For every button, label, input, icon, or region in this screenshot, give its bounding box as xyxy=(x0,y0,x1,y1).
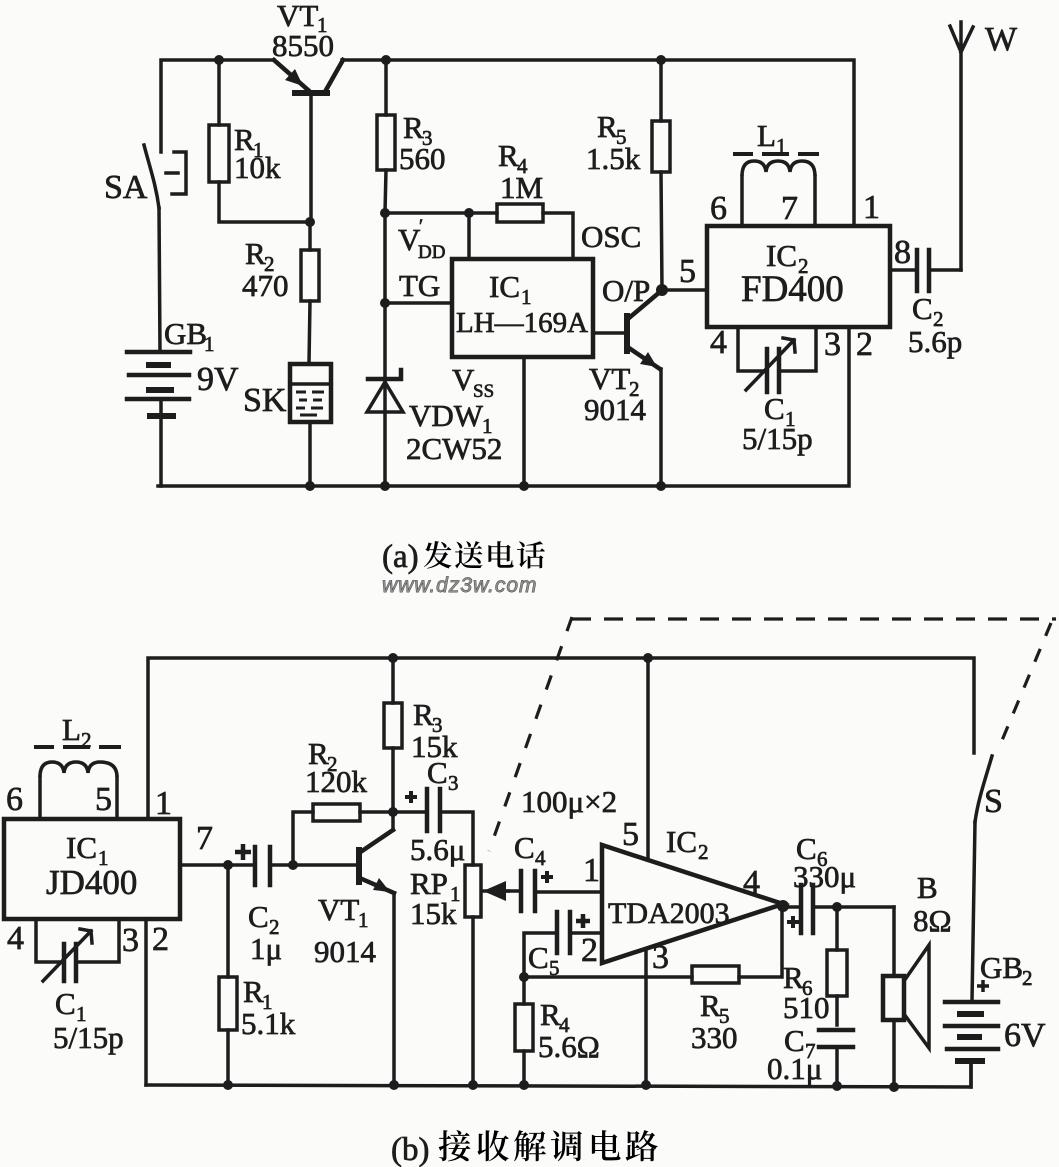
node junction VT1 base / R1 / R2 xyxy=(305,217,315,227)
op-amp U4: IC2 TDA2003 triangle xyxy=(602,824,783,963)
op-amp U1: IC1 LH-169A box xyxy=(452,259,593,357)
svg-text:W: W xyxy=(985,21,1018,58)
svg-text:GB: GB xyxy=(164,316,207,351)
svg-text:0.1μ: 0.1μ xyxy=(767,1051,822,1086)
svg-text:7: 7 xyxy=(781,190,798,227)
svg-text:SK: SK xyxy=(243,382,287,419)
svg-text:TG: TG xyxy=(399,268,440,303)
svg-text:2: 2 xyxy=(1022,966,1033,990)
pin number 3 (IC2) xyxy=(824,326,841,363)
svg-text:3: 3 xyxy=(824,326,841,363)
svg-text:IC: IC xyxy=(66,830,97,865)
svg-text:3: 3 xyxy=(122,922,139,959)
svg-text:1.5k: 1.5k xyxy=(586,141,641,176)
capacitor C2 1u (b) xyxy=(235,844,356,966)
dashed line right diagonal xyxy=(998,623,1051,750)
capacitor C4 100u xyxy=(508,830,602,911)
node junction C7 bottom xyxy=(832,1081,842,1091)
svg-text:IC: IC xyxy=(489,269,520,304)
svg-text:7: 7 xyxy=(196,820,213,857)
resistor R2 120k (b) xyxy=(293,736,393,865)
pin number 1 (IC1 JD400) xyxy=(155,785,172,822)
svg-text:R: R xyxy=(245,236,266,271)
svg-text:www.dz3w.com: www.dz3w.com xyxy=(382,574,538,597)
svg-text:C: C xyxy=(912,291,933,326)
svg-text:8Ω: 8Ω xyxy=(913,903,952,938)
node junction Vdd xyxy=(380,208,390,218)
node junction R1 top (b) xyxy=(223,860,233,870)
node junction R1 top xyxy=(214,55,224,65)
svg-text:1M: 1M xyxy=(500,170,543,205)
svg-text:C: C xyxy=(248,899,269,934)
svg-text:9V: 9V xyxy=(197,361,239,398)
transistor VT1 9014 (b) xyxy=(314,812,394,1085)
pin number 3 (TDA2003) xyxy=(652,939,669,976)
svg-text:R: R xyxy=(498,138,519,173)
resistor R5 330 (b) xyxy=(691,907,782,1055)
dashed line left diagonal xyxy=(489,617,572,851)
node junction speaker bottom xyxy=(889,1082,899,1092)
capacitor C2 5.6p xyxy=(890,250,962,359)
capacitor C5 100u xyxy=(524,912,602,980)
wire Vdd node to R4 node xyxy=(385,211,469,215)
wire pin7 to C2 xyxy=(180,863,255,867)
pin number 2 (TDA2003) xyxy=(581,932,598,969)
zener diode VDW1 2CW52 xyxy=(367,303,502,486)
watermark www.dz3w.com xyxy=(382,574,538,597)
svg-text:2: 2 xyxy=(581,932,598,969)
label 100u x2 xyxy=(521,784,617,819)
svg-text:1: 1 xyxy=(583,852,600,889)
wire bottom rail (a) xyxy=(158,327,849,486)
potentiometer RP1 15k xyxy=(410,865,508,1085)
dashed line top xyxy=(572,617,1056,620)
wire SA to battery xyxy=(159,208,160,352)
svg-text:2: 2 xyxy=(152,921,169,958)
capacitor C6 330u xyxy=(783,831,894,933)
svg-text:C: C xyxy=(528,940,549,975)
svg-text:1: 1 xyxy=(358,908,369,932)
pin number 2 (IC2) xyxy=(856,326,873,363)
variable capacitor C1 5/15p xyxy=(738,327,816,456)
pin label TG xyxy=(399,268,440,303)
node junction SK bottom xyxy=(305,481,315,491)
inductor L2 xyxy=(34,712,121,819)
svg-text:4: 4 xyxy=(535,846,546,870)
microphone SK xyxy=(243,364,331,486)
svg-text:5/15p: 5/15p xyxy=(53,1020,124,1055)
node junction C5 / R4 / feedback wire xyxy=(519,972,529,982)
svg-text:LH—169A: LH—169A xyxy=(456,307,588,339)
wire IC1 pin2 to ground (b) xyxy=(144,919,148,1085)
svg-text:DD: DD xyxy=(418,242,445,263)
node junction TDA2003 output pin4 xyxy=(777,900,789,912)
svg-text:R: R xyxy=(597,109,618,144)
svg-text:GB: GB xyxy=(980,950,1023,985)
variable capacitor C1 5/15p (b) xyxy=(36,919,124,1055)
resistor R3 15k (b) xyxy=(384,658,458,812)
svg-text:4: 4 xyxy=(743,864,760,901)
svg-text:SA: SA xyxy=(104,169,148,206)
svg-text:V: V xyxy=(452,362,475,397)
svg-text:120k: 120k xyxy=(305,764,368,799)
wire S to battery GB2 xyxy=(972,822,975,1001)
wire Vss to ground rail xyxy=(522,357,526,486)
pin number 2 (IC1 JD400 bottom) xyxy=(152,921,169,958)
svg-text:VT: VT xyxy=(318,892,359,927)
node junction R3 / R2 / C3 / VT1 collector xyxy=(388,807,398,817)
svg-text:1: 1 xyxy=(155,785,172,822)
svg-text:′: ′ xyxy=(419,216,423,237)
svg-text:6V: 6V xyxy=(1004,1017,1046,1054)
pin number 5 (TDA2003) xyxy=(622,816,639,853)
svg-text:O/P: O/P xyxy=(602,273,650,308)
pin number 1 (IC2) xyxy=(863,189,880,226)
svg-text:1: 1 xyxy=(521,285,532,309)
battery GB1 9V xyxy=(127,316,239,486)
svg-text:8550: 8550 xyxy=(272,28,334,63)
node junction TG / VDW1 xyxy=(380,298,390,308)
svg-text:C: C xyxy=(427,755,448,790)
node junction O/P / R5 / VT2 collector xyxy=(656,284,668,296)
svg-text:3: 3 xyxy=(448,771,459,795)
svg-text:R: R xyxy=(403,110,424,145)
node junction R1 bottom (b) xyxy=(223,1080,233,1090)
svg-text:5.1k: 5.1k xyxy=(241,1006,296,1041)
svg-text:510: 510 xyxy=(783,990,830,1025)
svg-text:B: B xyxy=(917,870,938,905)
capacitor C3 5.6u xyxy=(393,755,473,867)
transistor VT2 9014 xyxy=(584,291,661,486)
switch SA xyxy=(104,145,186,208)
svg-text:L: L xyxy=(757,118,776,153)
svg-text:IC: IC xyxy=(766,238,797,273)
svg-text:100μ×2: 100μ×2 xyxy=(521,784,617,819)
node junction C2 / R2 left xyxy=(288,860,298,870)
pin number 4 (TDA2003) xyxy=(743,864,760,901)
svg-text:2CW52: 2CW52 xyxy=(406,431,502,466)
pin number 7 (IC1 JD400) xyxy=(196,820,213,857)
pin label Vss xyxy=(452,362,494,402)
svg-text:9014: 9014 xyxy=(584,392,647,427)
node junction VT2 emitter bottom xyxy=(656,481,666,491)
node junction R4 bottom (b) xyxy=(519,1080,529,1090)
svg-text:5.6μ: 5.6μ xyxy=(410,832,465,867)
svg-text:(b): (b) xyxy=(391,1132,429,1167)
svg-text:1: 1 xyxy=(863,189,880,226)
svg-text:JD400: JD400 xyxy=(46,863,137,902)
node junction R5 top xyxy=(656,55,666,65)
svg-text:TDA2003: TDA2003 xyxy=(608,897,730,930)
wire top rail right segment xyxy=(342,60,854,226)
svg-text:6: 6 xyxy=(710,190,727,227)
wire feedback row xyxy=(524,975,692,979)
pin number 5 (IC1 JD400) xyxy=(95,781,112,818)
svg-text:330: 330 xyxy=(691,1020,738,1055)
resistor R4 5.6ohm xyxy=(515,977,600,1085)
svg-text:5/15p: 5/15p xyxy=(742,421,813,456)
svg-text:1: 1 xyxy=(204,332,215,356)
pin number 4 (IC2) xyxy=(710,324,727,361)
wire top rail left segment xyxy=(161,60,274,152)
svg-text:4: 4 xyxy=(7,920,24,957)
svg-text:1μ: 1μ xyxy=(250,931,282,966)
node junction R3 top xyxy=(381,55,391,65)
resistor R1 5.1k (b) xyxy=(219,865,296,1085)
node junction R4 left / Vdd pin xyxy=(464,208,474,218)
svg-text:5: 5 xyxy=(622,816,639,853)
svg-text:2: 2 xyxy=(698,840,709,864)
svg-text:OSC: OSC xyxy=(581,219,641,254)
svg-text:330μ: 330μ xyxy=(793,859,856,894)
svg-text:4: 4 xyxy=(710,324,727,361)
svg-text:5: 5 xyxy=(95,781,112,818)
node junction VDW1 bottom xyxy=(380,481,390,491)
wire IC2 pin3 to ground xyxy=(644,949,648,1085)
svg-text:R: R xyxy=(700,988,721,1023)
resistor R2 470 xyxy=(242,222,319,364)
svg-text:5.6Ω: 5.6Ω xyxy=(538,1029,600,1064)
resistor R4 1M xyxy=(469,138,573,259)
node junction R3 top (b) xyxy=(388,653,398,663)
caption (b) jie-shou-jie-tiao-dian-lu xyxy=(391,1130,658,1167)
pin label OSC xyxy=(581,219,641,254)
pin number 3 (IC1 JD400 bottom) xyxy=(122,922,139,959)
pin number 4 (IC1 JD400 bottom) xyxy=(7,920,24,957)
wire bottom rail (b) xyxy=(146,1061,971,1087)
resistor R5 1.5k xyxy=(586,60,670,290)
svg-text:R: R xyxy=(540,997,561,1032)
node junction RP1 bottom (b) xyxy=(468,1080,478,1090)
resistor R1 10k xyxy=(209,60,310,222)
transistor VT1 8550 (PNP, in series with top rail) xyxy=(272,0,343,222)
op-amp U3: IC1 JD400 box xyxy=(4,819,180,919)
svg-text:IC: IC xyxy=(666,824,697,859)
resistor R6 510 xyxy=(783,907,847,1025)
pin number 6 (IC2) xyxy=(710,190,727,227)
switch S xyxy=(975,756,1003,822)
pin number 7 (IC2) xyxy=(781,190,798,227)
svg-text:5: 5 xyxy=(679,253,696,290)
pin number 5 (IC2) xyxy=(679,253,696,290)
node junction VT1 emitter bottom (b) xyxy=(389,1080,399,1090)
node junction IC2 pin5 top (b) xyxy=(643,653,653,663)
svg-text:5.6p: 5.6p xyxy=(908,324,962,359)
svg-text:S: S xyxy=(984,783,1003,820)
caption (a) fa-song-dian-hua xyxy=(382,539,545,575)
svg-text:1: 1 xyxy=(776,134,787,158)
svg-text:VT: VT xyxy=(589,361,630,396)
pin label O/P xyxy=(602,273,650,308)
svg-text:C: C xyxy=(55,986,76,1021)
svg-text:(a): (a) xyxy=(382,539,419,575)
capacitor C7 0.1u xyxy=(767,1023,853,1086)
svg-text:SS: SS xyxy=(473,381,494,402)
resistor R3 560 xyxy=(377,60,446,213)
inductor L1 xyxy=(733,118,819,226)
svg-text:R: R xyxy=(243,974,264,1009)
wire Vdd pin into IC1 xyxy=(467,213,471,259)
svg-text:L: L xyxy=(62,712,81,747)
pin number 8 (IC2) xyxy=(894,234,911,271)
pin number 1 (TDA2003) xyxy=(583,852,600,889)
svg-text:560: 560 xyxy=(399,141,446,176)
node junction pin3 ground (b) xyxy=(641,1080,651,1090)
wire O/P node to IC2 pin5 xyxy=(662,288,707,292)
svg-text:C: C xyxy=(514,830,535,865)
svg-text:VDW: VDW xyxy=(409,398,484,433)
svg-text:15k: 15k xyxy=(410,896,457,931)
node junction C6 / R6 xyxy=(832,902,842,912)
svg-text:470: 470 xyxy=(242,268,289,303)
node junction Vss bottom xyxy=(519,481,529,491)
svg-text:3: 3 xyxy=(652,939,669,976)
svg-text:2: 2 xyxy=(856,326,873,363)
svg-text:2: 2 xyxy=(81,728,92,752)
svg-text:8: 8 xyxy=(894,234,911,271)
antenna W xyxy=(950,21,1018,270)
wire TG xyxy=(385,213,452,303)
battery GB2 6V xyxy=(945,950,1046,1087)
svg-text:9014: 9014 xyxy=(314,934,377,969)
svg-text:FD400: FD400 xyxy=(741,269,844,310)
svg-text:10k: 10k xyxy=(234,150,281,185)
wire IC2 pin5 drop xyxy=(646,658,650,860)
pin number 6 (IC1 JD400) xyxy=(6,781,23,818)
speaker B 8ohm xyxy=(883,870,952,1087)
svg-text:6: 6 xyxy=(6,781,23,818)
op-amp U2: IC2 FD400 box xyxy=(707,226,890,327)
wire top rail (b) xyxy=(148,658,974,819)
pin label Vdd' xyxy=(398,216,445,263)
svg-text:R: R xyxy=(413,697,434,732)
